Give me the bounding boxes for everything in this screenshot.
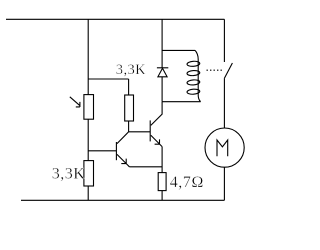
motor M1 circle bbox=[205, 128, 244, 167]
transistor T1 base bar bbox=[115, 142, 117, 160]
resistor R3 body bbox=[158, 173, 166, 191]
resistor R1 body bbox=[84, 161, 94, 186]
resistor R2 body bbox=[125, 95, 134, 121]
wire right branch lower segment bbox=[223, 167, 225, 200]
wire LDR bottom to divider node bbox=[87, 119, 89, 160]
wire T1 emitter to T2 emitter node bbox=[129, 166, 162, 168]
wire node A to transistor T2 base bbox=[129, 131, 151, 133]
transistor T1 collector bbox=[117, 132, 129, 144]
transistor T2 collector bbox=[151, 102, 162, 126]
wire resistor R3 to bottom rail bbox=[161, 191, 163, 201]
wire top junction to resistor R2 bbox=[88, 78, 128, 80]
svg-text:3,3K: 3,3K bbox=[116, 62, 146, 78]
wire top supply rail bbox=[6, 18, 224, 20]
wire T2 emitter to resistor R3 bbox=[161, 147, 163, 173]
transistor T2 emitter with arrow bbox=[151, 135, 162, 146]
svg-text:4,7Ω: 4,7Ω bbox=[170, 174, 204, 191]
relay coil K1 bbox=[195, 50, 201, 101]
transistor T2 base bar bbox=[149, 120, 151, 141]
resistor R2 bottom lead bbox=[128, 121, 130, 132]
wire bottom supply rail bbox=[21, 199, 224, 201]
wire resistor R1 to bottom rail bbox=[87, 186, 89, 200]
svg-text:3,3K: 3,3K bbox=[52, 166, 86, 183]
diode D1 triangle bbox=[158, 68, 167, 77]
wire right branch upper segment bbox=[223, 19, 225, 62]
wire left branch from top rail down to LDR bbox=[87, 19, 89, 94]
wire relay coil bottom return bbox=[162, 101, 201, 103]
wire divider node to transistor T1 base bbox=[88, 150, 116, 152]
wire right branch middle segment bbox=[223, 78, 225, 128]
switch contact S (relay NO contact blade) bbox=[224, 63, 232, 78]
transistor T1 emitter with arrow bbox=[117, 154, 129, 166]
photoresistor LDR body bbox=[84, 95, 94, 120]
wire diode branch from top rail bbox=[161, 19, 163, 68]
resistor R2 top lead bbox=[128, 79, 130, 95]
wire diode D1 to T2 collector node bbox=[161, 77, 163, 102]
wire top junction to relay coil bbox=[162, 49, 195, 51]
photoresistor light arrow bbox=[70, 97, 80, 107]
motor M1 letter M bbox=[217, 140, 228, 156]
dotted actuation link line bbox=[207, 69, 224, 71]
diode D1 cathode bar bbox=[157, 67, 168, 69]
